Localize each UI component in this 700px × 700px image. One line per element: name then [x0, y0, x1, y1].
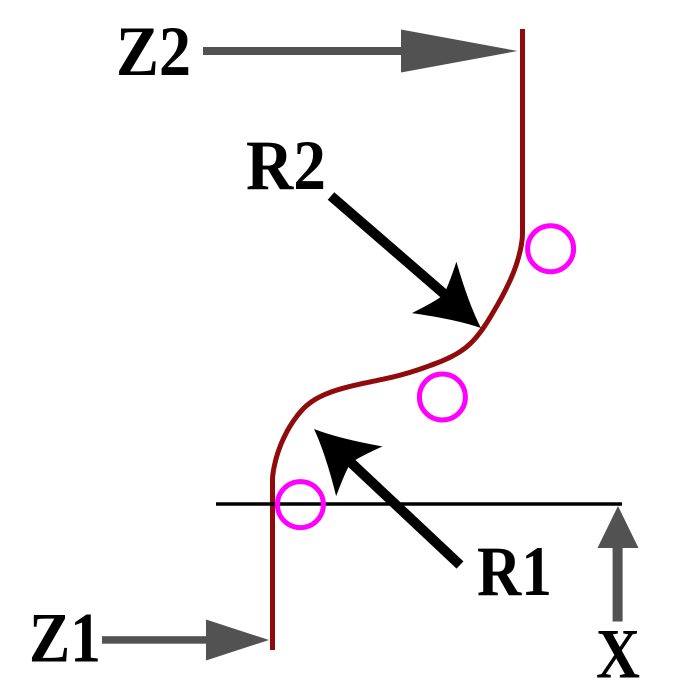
svg-text:Z1: Z1 [29, 600, 101, 678]
svg-text:R1: R1 [477, 533, 552, 611]
svg-text:Z2: Z2 [116, 13, 191, 91]
svg-text:R2: R2 [246, 127, 326, 205]
svg-text:X: X [596, 616, 640, 694]
